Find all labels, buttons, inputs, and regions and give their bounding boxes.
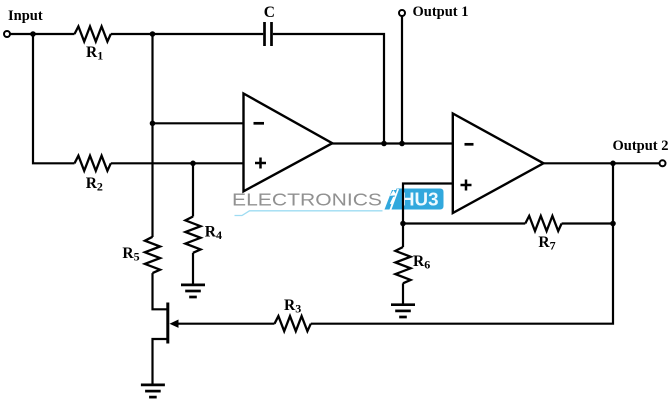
svg-text:R6: R6 <box>413 253 430 272</box>
wire op-amp2 plus input <box>403 184 453 224</box>
svg-text:R4: R4 <box>205 223 222 242</box>
wire R7 to right rail <box>562 222 613 224</box>
transistor Q1 source lead <box>153 339 168 385</box>
wire feedback vertical <box>151 34 153 237</box>
wire R5 to JFET drain <box>153 273 168 309</box>
transistor Q1 gate arrow <box>170 320 179 328</box>
wire to op-amp1 minus input <box>153 122 244 124</box>
wire R2 to op-amp plus input <box>111 162 244 164</box>
logo watermark ElectronicsHub <box>232 189 444 216</box>
ground R4 <box>181 285 205 297</box>
op-amp U2 plus sign <box>461 180 472 191</box>
wire R7 rail <box>403 222 525 224</box>
wire input down to R2 <box>33 34 75 163</box>
capacitor C <box>265 22 272 46</box>
op-amp U1 plus sign <box>255 158 266 169</box>
wire R6 top <box>402 224 404 248</box>
svg-text:HU3: HU3 <box>401 190 439 210</box>
node minus input junction <box>150 121 156 127</box>
node input/R2 junction <box>30 31 36 37</box>
svg-text:Output 1: Output 1 <box>413 4 469 20</box>
wire input to R1 <box>10 33 75 35</box>
node R4 junction <box>190 161 196 167</box>
svg-text:R1: R1 <box>86 44 103 63</box>
op-amp U1 <box>244 94 333 192</box>
svg-text:R2: R2 <box>86 175 103 194</box>
ground JFET <box>141 385 165 397</box>
transistor Q1 JFET channel bar <box>166 303 169 344</box>
node C feedback <box>381 141 387 147</box>
wire op-amp1 output to op-amp2 minus <box>331 142 453 144</box>
wire R4 from node <box>192 163 194 216</box>
op-amp U2 <box>453 114 544 214</box>
wire Output 1 down <box>401 16 403 144</box>
svg-text:Output 2: Output 2 <box>613 138 669 154</box>
op-amp U2 minus sign <box>465 143 474 146</box>
svg-text:R5: R5 <box>122 245 139 264</box>
ground R6 <box>391 305 415 317</box>
wire R4 to ground <box>192 253 194 285</box>
resistor R7 <box>525 216 561 231</box>
node R6 junction <box>400 221 406 227</box>
wire R6 to ground <box>402 283 404 304</box>
svg-text:ELECTRONICS: ELECTRONICS <box>232 190 382 210</box>
wire op-amp2 output to Output 2 <box>542 162 660 164</box>
resistor R5 <box>145 237 160 273</box>
resistor R4 <box>185 217 200 253</box>
resistor R2 <box>75 156 111 171</box>
svg-text:R7: R7 <box>538 234 555 253</box>
node Output1 <box>399 141 405 147</box>
svg-text:C: C <box>264 4 275 21</box>
resistor R1 <box>75 26 111 41</box>
wire gate to R3 <box>172 323 275 325</box>
node R7 right <box>610 221 616 227</box>
svg-text:R3: R3 <box>284 297 301 316</box>
resistor R3 <box>275 316 311 331</box>
Output 1 terminal <box>399 10 405 16</box>
wire R3 to output2 node <box>311 163 613 323</box>
node Output2 <box>610 161 616 167</box>
wire C to output node <box>273 34 384 144</box>
op-amp U1 minus sign <box>254 122 265 125</box>
svg-text:Input: Input <box>8 8 43 24</box>
Output 2 terminal <box>660 160 666 166</box>
wire R1 to C <box>111 33 263 35</box>
input terminal <box>4 31 10 37</box>
node feedback junction top <box>150 31 156 37</box>
resistor R6 <box>395 247 410 283</box>
